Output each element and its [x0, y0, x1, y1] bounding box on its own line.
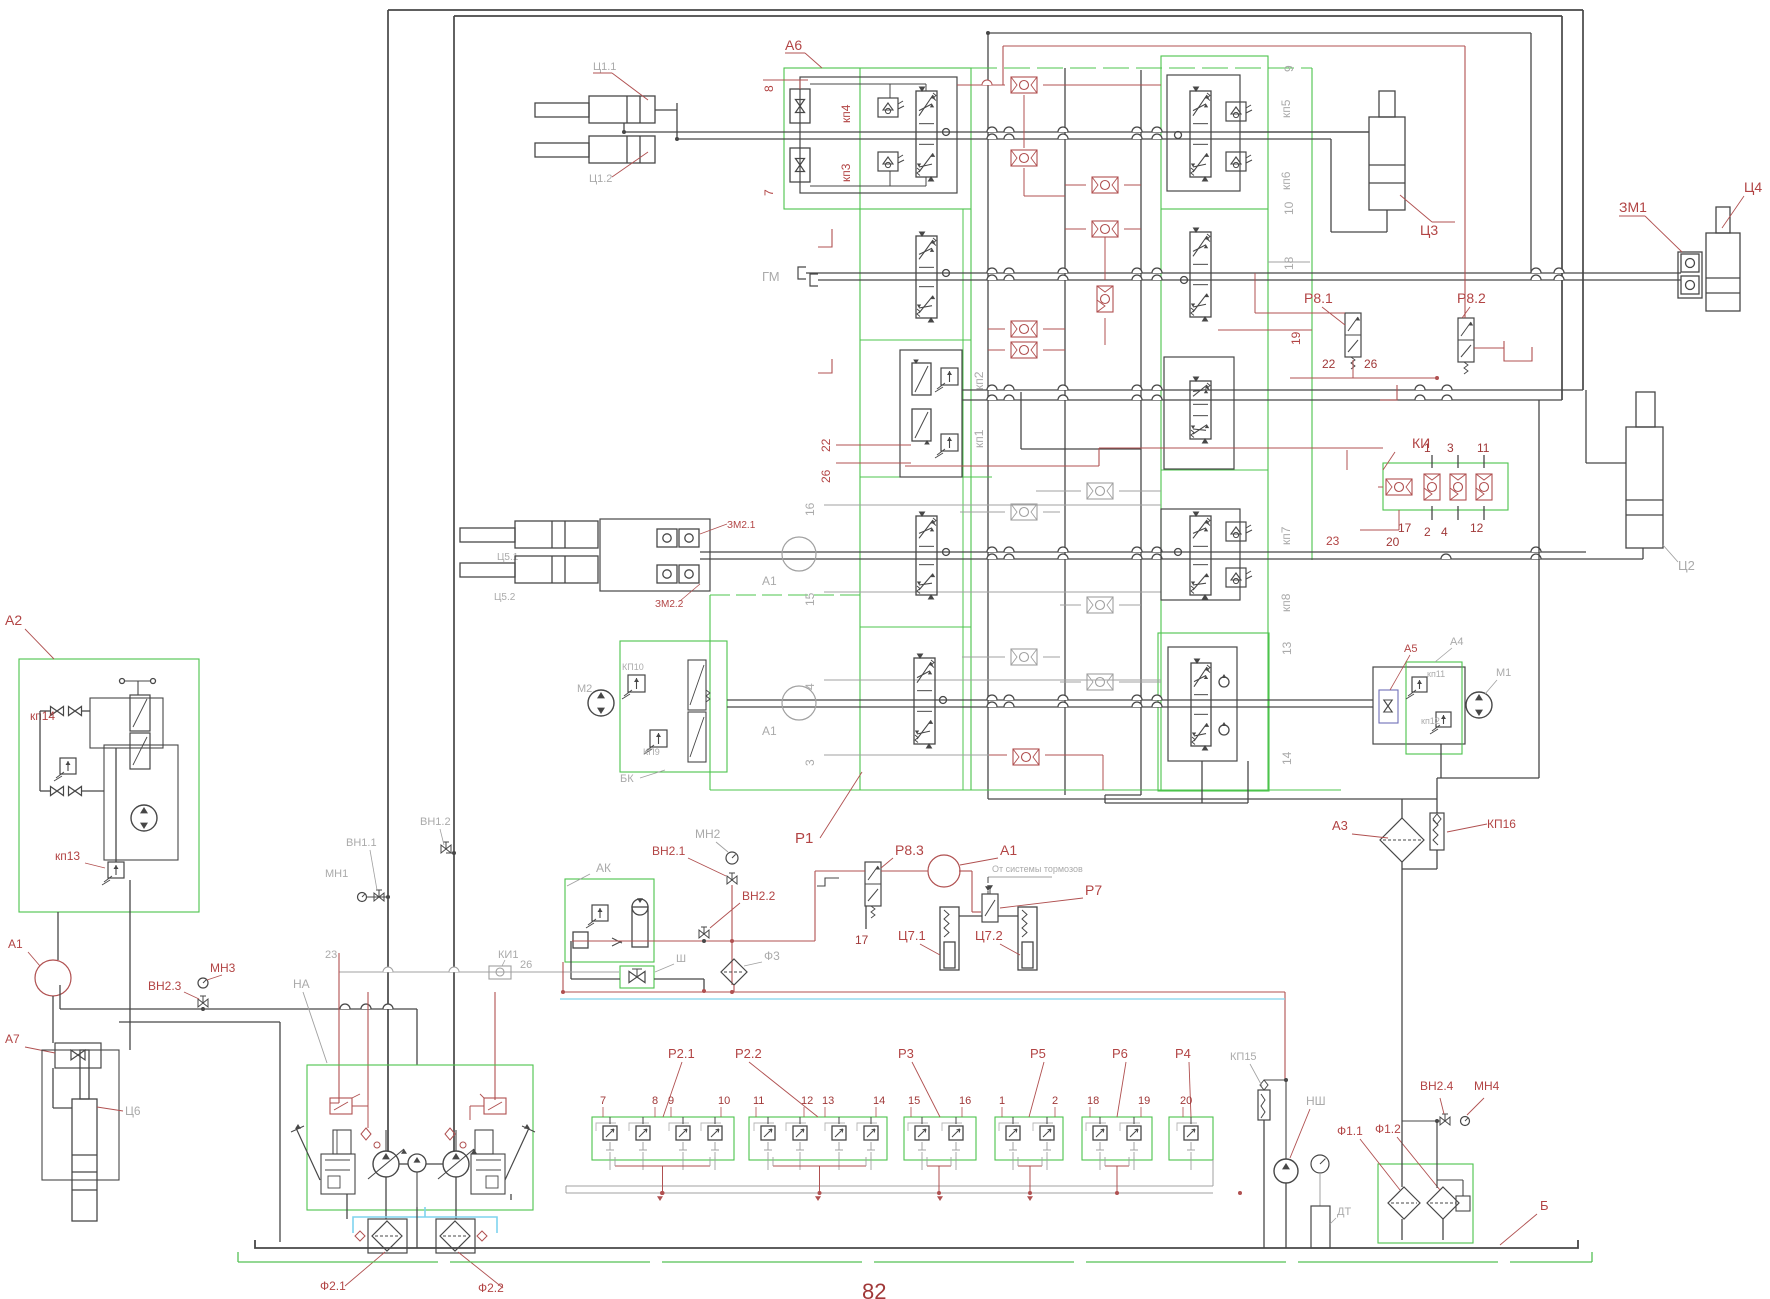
valve row2 left	[916, 236, 937, 318]
leader ВН2.3	[184, 992, 199, 999]
red box top right	[1003, 45, 1465, 47]
valve КП1 lower	[912, 409, 931, 441]
box А2 (green)	[19, 659, 199, 912]
wire row2 lower y=280	[818, 279, 1681, 281]
svg-text:Ц6: Ц6	[125, 1104, 141, 1118]
gray line 15	[824, 591, 1161, 593]
svg-text:А1: А1	[8, 937, 23, 951]
leader НШ	[1290, 1109, 1310, 1158]
leader ВН2.4	[1440, 1098, 1444, 1114]
frame А2 inner 2	[104, 745, 178, 860]
block frame row1 right	[1167, 75, 1240, 191]
block frame row3 left (КП1/КП2)	[900, 350, 962, 477]
motor М1	[1466, 692, 1492, 718]
svg-text:кп13: кп13	[55, 849, 80, 863]
check АК	[612, 938, 622, 946]
svg-text:3: 3	[1447, 441, 1454, 455]
wire left trunk x=388 (pump 1 pressure)	[387, 10, 389, 1151]
filter Ф1.1	[1388, 1187, 1420, 1219]
svg-text:ВН2.1: ВН2.1	[652, 844, 686, 858]
check valve gray g2	[1011, 504, 1037, 520]
svg-text:14: 14	[873, 1095, 885, 1107]
svg-text:3: 3	[803, 759, 817, 766]
leader Ц2	[1663, 545, 1678, 562]
svg-text:Р8.3: Р8.3	[895, 842, 924, 858]
lock valve ЗМ2.2	[657, 565, 677, 583]
wire А2 down to А1	[57, 912, 59, 960]
cylinder Ц5.1	[460, 528, 515, 542]
wire row1 frame inner	[810, 83, 926, 85]
svg-text:ЗМ1: ЗМ1	[1619, 199, 1647, 215]
svg-text:ВН2.4: ВН2.4	[1420, 1079, 1454, 1093]
red drop x=495	[494, 992, 496, 1100]
svg-text:Ф1.1: Ф1.1	[1337, 1124, 1363, 1138]
lock block ЗМ2	[600, 519, 710, 591]
wire row1 upper y=132	[624, 131, 1369, 133]
valve ВН2.3	[198, 999, 208, 1007]
wire А3 top	[1401, 799, 1403, 818]
leader Ф1.2	[1397, 1137, 1440, 1190]
wire Ц7 link	[959, 915, 982, 917]
red wire y=229	[1065, 228, 1086, 230]
wire row3 y=390	[962, 389, 1583, 391]
red wire x=1105	[1104, 237, 1106, 280]
wire А3 down x=1402	[1401, 862, 1403, 1113]
red drop x=368	[367, 992, 369, 1100]
box Р6 (green)	[1082, 1117, 1152, 1160]
svg-text:Р3: Р3	[898, 1046, 914, 1061]
pilot check КП8	[1226, 568, 1246, 587]
svg-text:19: 19	[1289, 331, 1303, 345]
block frame row1 left	[800, 77, 957, 193]
leader Ф1.1	[1360, 1139, 1400, 1190]
leader КИ1	[502, 960, 505, 966]
leader ЗМ1	[1645, 216, 1682, 252]
wire Ц2 top port	[1585, 390, 1587, 463]
leader Р6	[1117, 1062, 1126, 1117]
check valve red 3	[1092, 177, 1118, 193]
check КИ c	[1450, 474, 1466, 500]
wire middle trunk x=988	[987, 33, 989, 799]
valve ВН2.4	[1440, 1117, 1450, 1125]
wire x=1437 to Ф1.2	[1436, 1121, 1438, 1188]
wire row1 right to Ц3	[1240, 131, 1369, 133]
svg-text:МН3: МН3	[210, 961, 236, 975]
svg-text:11: 11	[1477, 441, 1490, 455]
leader A6	[805, 53, 822, 68]
svg-text:Ш: Ш	[676, 953, 686, 965]
tank green line	[238, 1261, 1592, 1263]
leader Ц6	[97, 1107, 123, 1111]
valve row5 right	[1191, 663, 1211, 746]
box БК (green)	[620, 641, 727, 772]
pilot check КП5	[1226, 102, 1246, 121]
wire 17 stem	[865, 906, 867, 929]
green dashed top y=68 to x=1312	[971, 67, 1312, 69]
wire row4 lower y=559	[700, 558, 1643, 560]
green bottom y=790 (box P1)	[710, 789, 1341, 791]
filter Ф3	[721, 959, 747, 985]
wire middle trunk x=1065	[1064, 68, 1066, 795]
red corner bracket above ГМ valve	[818, 229, 832, 247]
leader Ц1.1	[612, 73, 648, 100]
leader ВН1.2	[440, 829, 444, 845]
check КИ a	[1386, 479, 1412, 495]
port circle row5 left	[940, 697, 947, 704]
leader Ф2.2	[458, 1252, 503, 1288]
circle А1 pilot	[928, 855, 960, 887]
leader А5	[1390, 655, 1410, 690]
svg-text:БК: БК	[620, 773, 634, 785]
relief КП15	[1258, 1090, 1270, 1120]
green vertical x=1161	[1160, 209, 1162, 790]
leader Р8.2	[1462, 307, 1470, 318]
shut-off pair КП14 upper	[51, 706, 64, 715]
svg-text:От системы тормозов: От системы тормозов	[992, 864, 1083, 874]
pilot check КП7	[1226, 522, 1246, 541]
relief кп12	[1436, 712, 1451, 727]
red corner bracket near Р8.1	[1380, 385, 1397, 400]
wire row4 upper y=552	[700, 551, 1586, 553]
servo block left	[321, 1154, 355, 1194]
svg-text:МН1: МН1	[325, 868, 348, 880]
check valve gray g1	[1087, 483, 1113, 499]
wire ВН1.2 stub	[446, 852, 454, 854]
svg-text:А7: А7	[5, 1032, 20, 1046]
red drop x=1465 to Р8.2	[1464, 46, 1466, 318]
shut-off КП4	[790, 89, 810, 123]
breaks y=1009	[340, 1004, 350, 1009]
green box right row5	[1158, 633, 1269, 791]
box Ш (green)	[620, 966, 654, 988]
valve ВН1.1	[374, 893, 384, 901]
red wire check2 out	[1023, 168, 1025, 196]
circle A1 row5	[782, 686, 816, 720]
wire row1 lower y=139	[677, 138, 1331, 140]
solenoid valve Р2.1.4	[708, 1126, 722, 1140]
port bracket Р8.3	[817, 878, 839, 886]
svg-text:НШ: НШ	[1306, 1094, 1326, 1108]
check КИ b	[1424, 474, 1440, 500]
wire y=778	[1437, 777, 1539, 779]
valve row5 left	[914, 658, 935, 744]
red wire y=185	[1065, 184, 1086, 186]
leader А7	[25, 1047, 55, 1053]
solenoid valve Р6.2	[1127, 1126, 1141, 1140]
green separator y=340	[860, 339, 971, 341]
svg-text:КП15: КП15	[1230, 1051, 1257, 1063]
leader Ц3	[1400, 195, 1432, 222]
box А4 (green)	[1406, 662, 1462, 754]
element АК small	[573, 932, 588, 948]
gauge МН1	[358, 893, 367, 902]
svg-text:Р4: Р4	[1175, 1046, 1191, 1061]
leader Ш	[655, 964, 674, 972]
red link check1-check2	[1023, 95, 1025, 148]
svg-text:12: 12	[801, 1095, 813, 1107]
frame А2 inner 1	[90, 698, 163, 748]
gray manifold line 2	[566, 1192, 1213, 1194]
cylinder Ц6	[72, 1099, 97, 1221]
svg-text:20: 20	[1386, 535, 1400, 549]
svg-text:Ц7.2: Ц7.2	[975, 928, 1003, 943]
leader МН3	[207, 975, 222, 980]
red arrows manifold	[657, 1196, 663, 1201]
leader Б	[1500, 1214, 1537, 1245]
port bracket ГМ upper	[798, 267, 806, 279]
leader Р2.2	[749, 1062, 818, 1117]
svg-text:Р5: Р5	[1030, 1046, 1046, 1061]
svg-text:кп5: кп5	[1279, 99, 1293, 118]
svg-text:26: 26	[819, 469, 833, 483]
svg-text:23: 23	[325, 949, 337, 961]
breaks row3	[987, 385, 997, 390]
red collector arcs	[615, 1165, 710, 1167]
leader Р8.1	[1322, 307, 1345, 325]
filter Ф2.2	[440, 1221, 470, 1251]
check valve red 2	[1011, 150, 1037, 166]
svg-text:26: 26	[520, 959, 532, 971]
red corner bracket below ГМ row	[818, 359, 832, 373]
svg-text:ГМ: ГМ	[762, 269, 780, 284]
solenoid valve Р2.2.1	[761, 1126, 775, 1140]
port bracket ГМ lower	[810, 274, 818, 286]
svg-text:14: 14	[1280, 751, 1294, 765]
relief кп11	[1412, 677, 1427, 692]
filter Ф2.1	[372, 1221, 402, 1251]
blue suction line	[353, 1217, 497, 1233]
valve БК center	[688, 660, 706, 710]
leader А1 pilot	[960, 858, 998, 865]
port circle row4 right	[1175, 549, 1182, 556]
box Ф1 (green)	[1378, 1164, 1473, 1243]
filter Ф1.2	[1427, 1187, 1459, 1219]
svg-text:8: 8	[652, 1095, 658, 1107]
leader МН2	[716, 842, 728, 852]
block frame row5 right	[1168, 647, 1237, 761]
leader Р5	[1029, 1062, 1044, 1117]
leader ВН1.1	[370, 850, 377, 890]
svg-text:Б: Б	[1540, 1198, 1549, 1213]
red wires НА	[330, 1102, 339, 1104]
port circle row2 right	[1181, 277, 1188, 284]
box Р3 (green)	[904, 1117, 976, 1160]
svg-text:17: 17	[855, 933, 869, 947]
relief КП13	[108, 862, 124, 878]
leader Р7	[1000, 898, 1083, 908]
svg-text:МН2: МН2	[695, 827, 721, 841]
cylinder Ц3	[1369, 117, 1405, 210]
breaks row2	[987, 268, 997, 273]
svg-text:кп4: кп4	[839, 104, 853, 123]
wire НШ feed	[1285, 1080, 1287, 1159]
leader НА	[303, 992, 327, 1063]
svg-text:13: 13	[1280, 641, 1294, 655]
green vertical x=710 (box P1 left)	[709, 595, 711, 790]
leader ВН2.1	[688, 858, 726, 876]
solenoid valve Р3.1	[915, 1126, 929, 1140]
svg-text:ВН2.2: ВН2.2	[742, 889, 776, 903]
red feed Р8.1	[1254, 273, 1256, 313]
shaft circle	[408, 1154, 426, 1172]
solenoid valve Р3.2	[949, 1126, 963, 1140]
red jog x=1099	[1098, 448, 1100, 466]
relief КП10	[628, 675, 645, 692]
wire row1 to Ц3 bottom	[1330, 139, 1332, 232]
valve ВН2.1	[727, 876, 737, 884]
wire ВН2.4 link	[1402, 1120, 1440, 1122]
pump right	[443, 1151, 469, 1177]
relief А2	[60, 758, 76, 774]
green separator y=477	[860, 476, 992, 478]
relief Ф1	[1456, 1196, 1470, 1211]
svg-text:ВН2.3: ВН2.3	[148, 979, 182, 993]
wire А7 to Ц6	[52, 1068, 54, 1108]
svg-text:15: 15	[908, 1095, 920, 1107]
check valve gray g3	[1087, 597, 1113, 613]
wire Ц6 right	[119, 1021, 280, 1023]
leader Ф3	[744, 962, 762, 966]
svg-text:Р2.2: Р2.2	[735, 1046, 762, 1061]
solenoid valve Р5.2	[1040, 1126, 1054, 1140]
spool А2	[130, 695, 150, 731]
green vertical x=860	[859, 68, 861, 790]
leader АК	[567, 874, 590, 886]
svg-text:82: 82	[862, 1279, 886, 1299]
svg-text:А4: А4	[1450, 636, 1463, 648]
svg-text:кп2: кп2	[972, 371, 986, 390]
red wire 23	[338, 953, 340, 1103]
valve КП2 upper	[912, 363, 931, 395]
lever left	[296, 1128, 320, 1180]
leader БК	[640, 770, 665, 778]
filter А3	[1380, 818, 1424, 862]
relief red left (23)	[330, 1098, 352, 1114]
gauge bottom	[1311, 1155, 1329, 1173]
red wire Р8.2 right	[1474, 347, 1504, 349]
svg-text:кп12: кп12	[1421, 716, 1440, 726]
box Р2.1 (green)	[592, 1117, 734, 1160]
check valve gray g5	[1087, 674, 1113, 690]
svg-text:А3: А3	[1332, 818, 1348, 833]
green separator y=470 right	[1161, 469, 1268, 471]
pilot valve Р8.3	[865, 862, 881, 906]
leader кп13	[85, 863, 105, 868]
wire servo to filter	[346, 1194, 348, 1219]
solenoid valve Р2.2.2	[793, 1126, 807, 1140]
svg-text:7: 7	[762, 189, 776, 196]
check circles row5 right	[1219, 677, 1229, 687]
wire brake line	[988, 876, 1052, 878]
svg-text:22: 22	[1322, 357, 1336, 371]
check valve red row5	[1013, 749, 1039, 765]
leader Р4	[1189, 1062, 1191, 1117]
wire pump feeds	[385, 1130, 387, 1151]
svg-text:А1: А1	[762, 724, 777, 738]
pump НШ	[1274, 1159, 1298, 1183]
svg-text:М1: М1	[1496, 667, 1511, 679]
gray manifold drops	[609, 1157, 611, 1170]
svg-text:ЗМ2.2: ЗМ2.2	[655, 599, 684, 610]
gray web lines	[1036, 490, 1081, 492]
svg-text:кп3: кп3	[839, 163, 853, 182]
wire y=1009 horizontal	[60, 1008, 417, 1010]
shaft links	[399, 1163, 408, 1165]
gray line 4	[824, 679, 1161, 681]
svg-text:кп1: кп1	[972, 429, 986, 448]
svg-text:20: 20	[1180, 1095, 1192, 1107]
shut-off А5 (blue)	[1379, 690, 1398, 723]
green vertical x=971	[970, 209, 972, 790]
svg-text:А1: А1	[762, 574, 777, 588]
svg-text:Ц1.1: Ц1.1	[593, 61, 616, 73]
svg-text:А1: А1	[1000, 842, 1017, 858]
leader Р2.1	[663, 1062, 682, 1117]
cylinder Ц4	[1706, 233, 1740, 311]
box Р4 (green)	[1169, 1117, 1213, 1160]
wire y=799 drop x=1141	[1105, 794, 1141, 796]
wire КП13 to bottom	[129, 880, 131, 1050]
svg-text:Ф2.2: Ф2.2	[478, 1281, 504, 1295]
breaks row4	[987, 547, 997, 552]
leader ВН2.2	[710, 903, 740, 928]
relief row3 upper	[941, 368, 958, 385]
svg-text:МН4: МН4	[1474, 1079, 1500, 1093]
wire mid shaft to tank	[416, 1172, 418, 1207]
box КИ (green)	[1383, 463, 1508, 510]
svg-text:кп7: кп7	[1279, 526, 1293, 545]
tank Б outline	[255, 1240, 1578, 1248]
svg-text:11: 11	[753, 1095, 764, 1107]
wire ВН2.1 down	[731, 885, 733, 985]
lock valve ЗМ2.1	[657, 529, 677, 547]
assembly box A6 (green)	[784, 68, 971, 209]
red corner bracket near Р8.2	[1504, 341, 1532, 361]
check valve red 1	[1011, 77, 1037, 93]
wires Ф1	[1401, 1113, 1403, 1187]
svg-text:15: 15	[803, 592, 817, 606]
solenoid valve Р4.1	[1184, 1126, 1198, 1140]
solenoid valve Р5.1	[1006, 1126, 1020, 1140]
svg-text:16: 16	[959, 1095, 971, 1107]
wire row2 upper y=273	[806, 272, 1681, 274]
svg-text:13: 13	[822, 1095, 834, 1107]
svg-text:22: 22	[819, 438, 833, 452]
pilot check row1 left upper	[878, 98, 898, 117]
leader Р1	[820, 772, 862, 838]
svg-text:Р8.1: Р8.1	[1304, 290, 1333, 306]
red wire Р8.3 to А1	[881, 870, 928, 872]
red drop x=1003	[1002, 46, 1004, 85]
lock valve ЗМ1	[1678, 252, 1702, 298]
port circle row1 left	[943, 129, 950, 136]
svg-text:8: 8	[762, 85, 776, 92]
leader МН4	[1467, 1098, 1484, 1115]
breaks row5	[987, 695, 997, 700]
stubs КИ bottom	[1431, 506, 1433, 520]
red wire y=350	[988, 349, 1005, 351]
leader М1	[1485, 680, 1497, 694]
svg-text:16: 16	[803, 502, 817, 516]
filter box Ф2.1	[368, 1219, 407, 1253]
leader Р8.3	[881, 858, 893, 868]
wire outer frame right drop x=1583	[1582, 10, 1584, 390]
lever right	[505, 1128, 529, 1180]
gray line 16	[824, 504, 1161, 506]
port circle row2 left	[943, 270, 950, 277]
leader Р3	[912, 1062, 940, 1117]
svg-text:18: 18	[1282, 256, 1296, 270]
